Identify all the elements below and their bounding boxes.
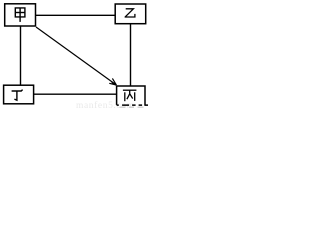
wire bottom (丁-丙) — [34, 93, 117, 95]
glyph 丁 — [12, 90, 23, 101]
glyph 乙 — [125, 9, 135, 17]
glyph 甲 — [15, 8, 25, 22]
box 丁 (bottom-left) — [4, 85, 34, 104]
box 乙 (top-right) — [115, 4, 146, 24]
wire top (甲-乙) — [36, 14, 116, 16]
box 甲 (top-left) — [5, 4, 36, 26]
wire right (乙-丙) — [130, 24, 132, 86]
glyph 丙 — [123, 90, 136, 101]
wire left (甲-丁) — [20, 26, 22, 85]
watermark manfen5.com — [76, 100, 135, 111]
watermark dots under 丙 — [120, 106, 144, 108]
box 丙 (bottom-right) — [117, 86, 149, 106]
arrow 甲→丙 diagonal — [36, 27, 116, 85]
